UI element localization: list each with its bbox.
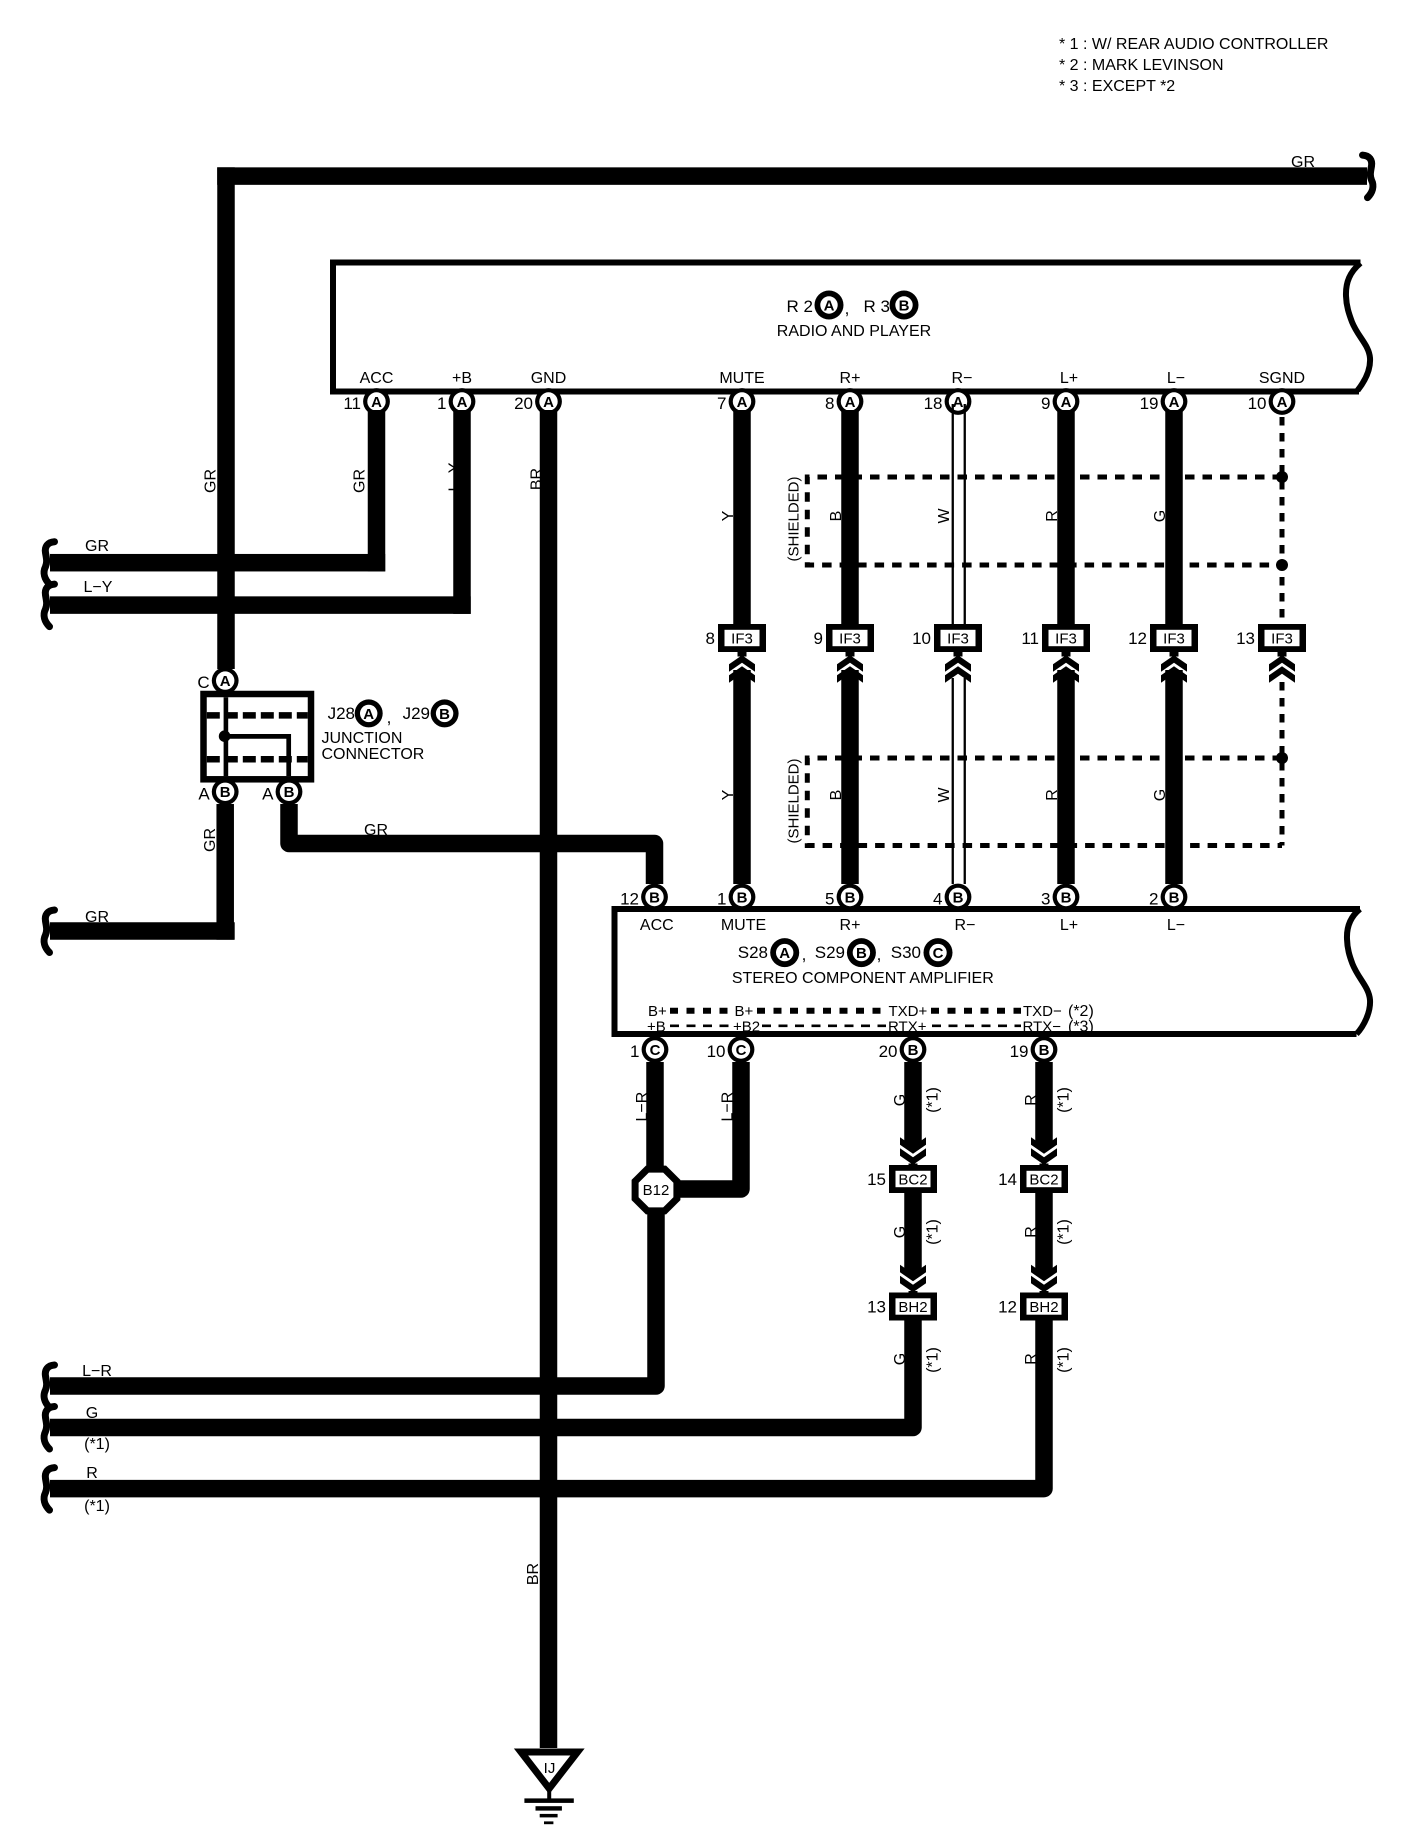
svg-text:SGND: SGND (1259, 370, 1305, 387)
wire SGND dashed from radio pin 10 (1280, 417, 1285, 624)
wire L-R from amp pin 10 C to splice B12 (680, 1062, 741, 1189)
svg-text:GR: GR (202, 828, 219, 852)
svg-text:13: 13 (1236, 629, 1255, 648)
amplifier pin 5 B (top) (825, 884, 863, 911)
svg-text:W: W (936, 787, 953, 803)
connector 12 BH2 (998, 1293, 1068, 1321)
svg-text:STEREO COMPONENT AMPLIFIER: STEREO COMPONENT AMPLIFIER (732, 970, 994, 987)
svg-text:A: A (371, 394, 382, 411)
svg-text:* 2 : MARK LEVINSON: * 2 : MARK LEVINSON (1059, 57, 1224, 74)
junction connector internal junction dot (219, 730, 231, 742)
svg-text:7: 7 (717, 394, 726, 413)
svg-text:12: 12 (1128, 629, 1147, 648)
svg-text:C: C (197, 673, 209, 692)
wire label R (*1) seg3 (1023, 1347, 1073, 1373)
radio pin 10 A (1248, 388, 1296, 415)
connector 9 IF3 (814, 624, 874, 652)
connector 15 BC2 (867, 1165, 937, 1193)
svg-text:MUTE: MUTE (719, 370, 764, 387)
amplifier pin 3 B (top) (1041, 884, 1079, 911)
svg-text:(*1): (*1) (84, 1498, 110, 1515)
amplifier title S28 (A) , S29 (B) , S30 (C) (738, 943, 921, 964)
amplifier title circle B (847, 938, 876, 967)
svg-text:IF3: IF3 (1163, 631, 1185, 648)
connector 8 IF3 (706, 624, 766, 652)
svg-text:B: B (828, 511, 845, 522)
svg-text:BR: BR (529, 468, 546, 490)
wire break GR upper left (44, 542, 54, 585)
svg-text:8: 8 (706, 629, 715, 648)
wire GR junction pin B down to GR branch (216, 804, 234, 940)
svg-text:L−R: L−R (634, 1092, 651, 1122)
wire W double-line from radio pin 18 R- (952, 404, 966, 624)
junction connector circle B (431, 699, 459, 727)
wire Y from radio pin 7 MUTE (733, 410, 751, 624)
svg-text:B: B (1169, 889, 1180, 906)
svg-text:9: 9 (814, 629, 823, 648)
connector 14 BC2 (998, 1165, 1068, 1193)
connector 10 IF3 mating arrow (945, 652, 971, 683)
svg-text:A: A (220, 673, 231, 690)
svg-text:GR: GR (364, 822, 388, 839)
svg-text:+B: +B (647, 1019, 666, 1036)
svg-text:(SHIELDED): (SHIELDED) (785, 758, 802, 843)
connector arrow into 12 BH2 (1031, 1265, 1057, 1296)
svg-text:19: 19 (1140, 394, 1159, 413)
svg-text:+B: +B (452, 370, 472, 387)
svg-text:L−Y: L−Y (84, 579, 113, 596)
connector block: RADIO AND PLAYER body (333, 263, 1361, 392)
svg-text:L−: L− (1167, 370, 1185, 387)
connector arrow into 13 BH2 (900, 1265, 926, 1296)
svg-text:C: C (736, 1042, 747, 1059)
svg-text:ACC: ACC (360, 370, 394, 387)
connector 10 IF3 (912, 624, 982, 652)
svg-text:15: 15 (867, 1170, 886, 1189)
svg-text:RTX+: RTX+ (888, 1019, 927, 1036)
svg-text:IJ: IJ (544, 1760, 556, 1777)
wire R BC2 to BH2 (1035, 1192, 1053, 1275)
svg-text:S28: S28 (738, 943, 768, 962)
svg-text:R: R (1023, 1226, 1040, 1238)
svg-text:R 2: R 2 (787, 297, 813, 316)
connector 13 BH2 (867, 1293, 937, 1321)
svg-text:B: B (737, 889, 748, 906)
junction connector pin C A (top) (197, 667, 238, 694)
svg-text:B: B (908, 1042, 919, 1059)
svg-text:IF3: IF3 (731, 631, 753, 648)
wire G from amp pin 20 B (904, 1062, 922, 1147)
wire label G (*1) seg2 (892, 1219, 942, 1245)
svg-text:L+: L+ (1060, 917, 1078, 934)
wire label R (*1) seg1 (1023, 1087, 1073, 1113)
svg-text:R+: R+ (840, 370, 861, 387)
wire GR to other page (upper left) (50, 554, 385, 572)
svg-text:MUTE: MUTE (721, 917, 766, 934)
svg-text:GR: GR (1291, 154, 1315, 171)
splice B12 octagon (632, 1166, 681, 1215)
connector 12 IF3 mating arrow (1161, 652, 1187, 683)
svg-text:CONNECTOR: CONNECTOR (322, 746, 425, 763)
wire GR horizontal top to other system (217, 167, 1367, 185)
svg-text:BC2: BC2 (1029, 1172, 1058, 1189)
junction connector J28/J29 body (204, 694, 312, 779)
svg-text:A: A (363, 706, 374, 723)
wire break G left (44, 1407, 54, 1450)
wire R IF3-11 to amp pin 3 L+ (1057, 670, 1075, 884)
legend notes (1059, 36, 1328, 95)
svg-text:10: 10 (1248, 394, 1267, 413)
svg-text:R−: R− (955, 917, 976, 934)
svg-text:IF3: IF3 (839, 631, 861, 648)
amplifier title circle C (924, 938, 953, 967)
svg-text:A: A (953, 394, 964, 411)
wire G BH2 down to other page (50, 1320, 913, 1428)
radio pin 20 A (514, 388, 562, 415)
svg-text:B: B (220, 784, 231, 801)
svg-text:A: A (845, 394, 856, 411)
wire label R (*1) seg2 (1023, 1219, 1073, 1245)
radio pin 8 A (825, 388, 863, 415)
svg-text:10: 10 (912, 629, 931, 648)
radio title circle A (815, 291, 844, 320)
svg-text:B: B (1039, 1042, 1050, 1059)
wire SGND dashed IF3-13 to shield (1280, 682, 1285, 846)
svg-text:19: 19 (1010, 1042, 1029, 1061)
svg-text:BC2: BC2 (898, 1172, 927, 1189)
svg-text:A: A (737, 394, 748, 411)
svg-text:1: 1 (437, 394, 446, 413)
amplifier pin 19 B (bottom) (1010, 1036, 1058, 1063)
svg-text:(*2): (*2) (1068, 1003, 1094, 1020)
svg-text:B: B (284, 784, 295, 801)
svg-text:L+: L+ (1060, 370, 1078, 387)
wire GR from junction pin B2 to amp pin 12 ACC (289, 804, 655, 884)
svg-text:G: G (1152, 510, 1169, 522)
radio body torn right edge (1346, 263, 1370, 391)
shield box lower (dashed) (807, 758, 1282, 846)
svg-text:ACC: ACC (640, 917, 674, 934)
svg-text:J28: J28 (328, 704, 355, 723)
wire label R (bottom left) (84, 1465, 110, 1515)
wire GR from radio pin 11 ACC (368, 410, 386, 571)
wire break GR mid left (44, 910, 54, 953)
wire L-Y from radio pin 1 +B (453, 410, 471, 614)
svg-text:JUNCTION: JUNCTION (322, 730, 403, 747)
svg-text:2: 2 (1149, 890, 1158, 909)
connector block: STEREO COMPONENT AMPLIFIER body (615, 909, 1361, 1034)
svg-text:R: R (86, 1465, 98, 1482)
connector arrow into 15 BC2 (900, 1137, 926, 1168)
radio pin 18 A (924, 388, 972, 415)
svg-text:R+: R+ (840, 917, 861, 934)
svg-text:A: A (1277, 394, 1288, 411)
svg-text:18: 18 (924, 394, 943, 413)
amplifier pin 10 C (bottom) (707, 1036, 755, 1063)
radio pin 19 A (1140, 388, 1188, 415)
amplifier pin 20 B (bottom) (879, 1036, 927, 1063)
svg-text:(*1): (*1) (1056, 1347, 1073, 1373)
connector arrow into 14 BC2 (1031, 1137, 1057, 1168)
connector 11 IF3 mating arrow (1053, 652, 1079, 683)
svg-text:W: W (936, 508, 953, 524)
svg-text:BH2: BH2 (898, 1299, 927, 1316)
wire G IF3-12 to amp pin 2 L- (1165, 670, 1183, 884)
svg-text:* 3 : EXCEPT *2: * 3 : EXCEPT *2 (1059, 78, 1175, 95)
svg-text:(*3): (*3) (1068, 1019, 1094, 1036)
svg-text:R 3: R 3 (864, 297, 890, 316)
bus row +B / RTX dashed (647, 1019, 1094, 1036)
svg-text:R: R (1023, 1353, 1040, 1365)
wire L-R from amp pin 1 C to splice B12 (646, 1062, 664, 1167)
amplifier pin name labels (640, 917, 1185, 934)
wire label G (*1) seg1 (892, 1087, 942, 1113)
svg-text:14: 14 (998, 1170, 1017, 1189)
svg-text:BH2: BH2 (1029, 1299, 1058, 1316)
svg-text:IF3: IF3 (1271, 631, 1293, 648)
radio pin 9 A (1041, 388, 1079, 415)
svg-text:RADIO AND PLAYER: RADIO AND PLAYER (777, 323, 931, 340)
svg-text:GR: GR (352, 469, 369, 493)
svg-text:B: B (439, 706, 450, 723)
svg-text:A: A (543, 394, 554, 411)
svg-text:L−R: L−R (82, 1363, 112, 1380)
svg-text:1: 1 (717, 890, 726, 909)
svg-text:A: A (824, 297, 835, 314)
radio pin name labels (360, 370, 1306, 387)
wire R from radio pin 9 L+ (1057, 410, 1075, 624)
svg-text:S29: S29 (815, 943, 845, 962)
svg-text:11: 11 (1021, 629, 1039, 648)
svg-text:(SHIELDED): (SHIELDED) (785, 476, 802, 561)
svg-text:G: G (892, 1094, 909, 1106)
svg-text:1: 1 (630, 1042, 639, 1061)
wire R BH2 down to other page (50, 1320, 1044, 1489)
wire G BC2 to BH2 (904, 1192, 922, 1275)
svg-text:5: 5 (825, 890, 834, 909)
svg-text:A: A (198, 784, 210, 803)
junction connector internal link wire (225, 736, 289, 776)
svg-text:13: 13 (867, 1298, 886, 1317)
svg-text:(*1): (*1) (84, 1436, 110, 1453)
svg-text:(*1): (*1) (925, 1087, 942, 1113)
wire W double-line IF3-10 to amp pin 4 R- (952, 678, 966, 884)
amplifier pin 1 C (bottom) (630, 1036, 668, 1063)
svg-text:12: 12 (620, 890, 639, 909)
amplifier pin 2 B (top) (1149, 884, 1187, 911)
svg-text:L−: L− (1167, 917, 1185, 934)
amplifier body torn right edge (1347, 909, 1370, 1034)
svg-text:* 1 : W/ REAR AUDIO CONTROLLER: * 1 : W/ REAR AUDIO CONTROLLER (1059, 36, 1328, 53)
shield box upper (dashed) (807, 477, 1282, 565)
radio pin 11 A (343, 388, 390, 415)
svg-text:GR: GR (203, 469, 220, 493)
svg-text:B: B (828, 790, 845, 801)
junction connector dashed row 1 (207, 712, 308, 719)
wire GR to other page (mid left) (50, 922, 235, 940)
junction connector pin A B (bottom middle) (262, 778, 302, 805)
svg-text:C: C (933, 945, 944, 962)
svg-text:(*1): (*1) (925, 1347, 942, 1373)
svg-text:R−: R− (952, 370, 973, 387)
amplifier pin 4 B (top) (933, 884, 971, 911)
svg-text:C: C (650, 1042, 661, 1059)
svg-text:L−R: L−R (720, 1092, 737, 1122)
svg-text:,: , (877, 945, 882, 964)
svg-text:B+: B+ (735, 1003, 754, 1020)
svg-text:(*1): (*1) (1056, 1087, 1073, 1113)
junction connector circle A (355, 699, 383, 727)
amplifier pin 1 B (top) (717, 884, 755, 911)
svg-text:B: B (856, 945, 867, 962)
amplifier title circle A (770, 938, 799, 967)
connector 12 IF3 (1128, 624, 1198, 652)
svg-text:R: R (1044, 510, 1061, 522)
svg-text:G: G (86, 1405, 98, 1422)
wire R from amp pin 19 B (1035, 1062, 1053, 1147)
svg-text:,: , (845, 299, 850, 318)
wire BR from radio pin 20 GND (to ground) (540, 410, 558, 1748)
svg-text:,: , (387, 708, 392, 727)
svg-text:8: 8 (825, 394, 834, 413)
connector 8 IF3 mating arrow (729, 652, 755, 683)
svg-text:10: 10 (707, 1042, 726, 1061)
svg-text:G: G (892, 1353, 909, 1365)
svg-text:B: B (899, 297, 910, 314)
svg-text:IF3: IF3 (1055, 631, 1077, 648)
svg-text:Y: Y (720, 510, 737, 521)
svg-text:4: 4 (933, 890, 942, 909)
svg-text:B+: B+ (648, 1003, 667, 1020)
connector 13 IF3 mating arrow (1269, 652, 1295, 683)
wire break R left (44, 1468, 54, 1511)
junction connector dashed row 2 (207, 756, 308, 763)
radio title R 2 (A) , R 3 (B) (787, 297, 890, 318)
junction connector designators J28 (A) , J29 (B) (328, 704, 430, 727)
svg-text:TXD−: TXD− (1023, 1003, 1062, 1020)
svg-text:TXD+: TXD+ (889, 1003, 928, 1020)
svg-text:A: A (1169, 394, 1180, 411)
svg-text:R: R (1044, 789, 1061, 801)
junction dot shield upper bottom (1276, 559, 1288, 571)
svg-text:A: A (262, 784, 274, 803)
svg-text:Y: Y (720, 789, 737, 800)
svg-text:,: , (802, 945, 807, 964)
junction connector label JUNCTION CONNECTOR (322, 730, 425, 763)
svg-text:B: B (845, 889, 856, 906)
wire break top right (1363, 155, 1373, 198)
junction dot shield lower top (1276, 752, 1288, 764)
svg-text:A: A (779, 945, 790, 962)
connector 11 IF3 (1021, 624, 1090, 652)
wire Y IF3-8 to amp pin 1 MUTE (733, 670, 751, 884)
svg-text:(*1): (*1) (925, 1219, 942, 1245)
svg-text:G: G (892, 1226, 909, 1238)
ground IJ symbol (521, 1752, 578, 1824)
svg-text:GR: GR (85, 538, 109, 555)
wire G from radio pin 19 L- (1165, 410, 1183, 624)
svg-text:20: 20 (879, 1042, 898, 1061)
connector 13 IF3 (1236, 624, 1306, 652)
svg-text:RTX−: RTX− (1023, 1019, 1062, 1036)
svg-text:3: 3 (1041, 890, 1050, 909)
svg-text:20: 20 (514, 394, 533, 413)
svg-text:S30: S30 (891, 943, 921, 962)
svg-text:A: A (457, 394, 468, 411)
svg-text:L−Y: L−Y (447, 462, 464, 491)
svg-text:B: B (649, 889, 660, 906)
svg-text:11: 11 (343, 394, 361, 413)
svg-text:A: A (1061, 394, 1072, 411)
svg-text:GR: GR (85, 909, 109, 926)
wire L-Y to other page (50, 596, 471, 614)
svg-text:B: B (953, 889, 964, 906)
wire L-R from splice B12 down to other page (50, 1213, 656, 1386)
junction connector pin A B (bottom left) (198, 778, 238, 805)
svg-text:IF3: IF3 (947, 631, 969, 648)
svg-text:J29: J29 (403, 704, 430, 723)
wire B IF3-9 to amp pin 5 R+ (841, 670, 859, 884)
wire label G (*1) seg3 (892, 1347, 942, 1373)
svg-text:G: G (1152, 789, 1169, 801)
radio title circle B (890, 291, 919, 320)
bus row B+ / TXD dashed (648, 1003, 1094, 1020)
junction connector inner vertical bar (224, 697, 229, 776)
connector 9 IF3 mating arrow (837, 652, 863, 683)
wire break L-Y left (44, 584, 54, 627)
svg-text:(*1): (*1) (1056, 1219, 1073, 1245)
wire B from radio pin 8 R+ (841, 410, 859, 624)
svg-text:B: B (1061, 889, 1072, 906)
svg-text:R: R (1023, 1094, 1040, 1106)
wire GR main vertical (217, 167, 235, 669)
svg-text:B12: B12 (643, 1182, 670, 1199)
junction dot shield upper top (1276, 471, 1288, 483)
svg-text:12: 12 (998, 1298, 1017, 1317)
radio pin 1 A (437, 388, 475, 415)
wire break L-R left (44, 1365, 54, 1408)
amplifier pin 12 B (top) (620, 884, 668, 911)
radio pin 7 A (717, 388, 755, 415)
svg-text:BR: BR (525, 1563, 542, 1585)
wire label G (bottom left) (84, 1405, 110, 1453)
svg-text:9: 9 (1041, 394, 1050, 413)
svg-text:GND: GND (531, 370, 567, 387)
svg-text:+B2: +B2 (733, 1019, 760, 1036)
